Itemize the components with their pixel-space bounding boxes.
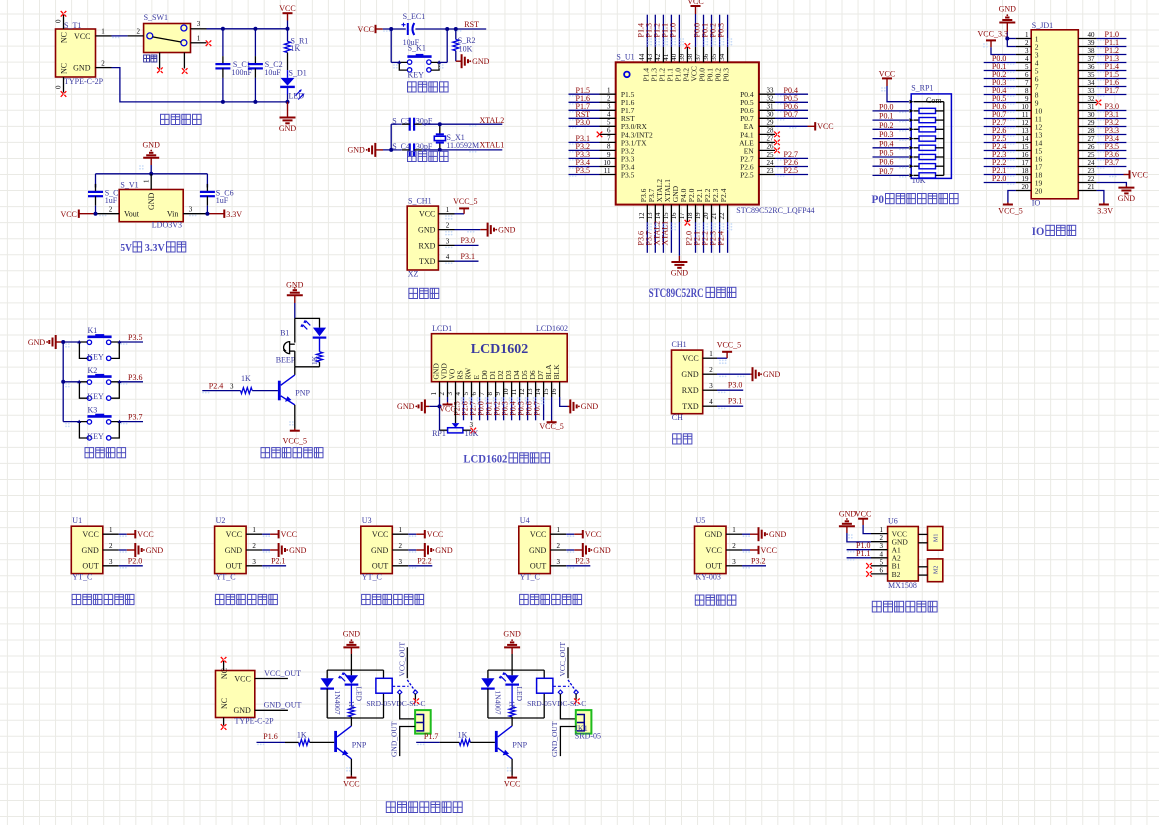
wire net P1.0	[678, 15, 680, 47]
wire key K1 to net	[120, 341, 144, 343]
resistor network S_RP1 body	[911, 94, 951, 178]
svg-text:1: 1	[880, 526, 884, 534]
svg-text:17: 17	[1022, 159, 1030, 167]
svg-text:BEEP: BEEP	[276, 356, 296, 365]
svg-text:13: 13	[1022, 127, 1030, 135]
capacitor S_C4 30pF	[409, 143, 411, 156]
wire net P1.4	[646, 15, 648, 47]
svg-text:13: 13	[526, 388, 534, 396]
svg-text:23: 23	[767, 167, 775, 175]
wire LCD P0.4	[519, 397, 521, 420]
svg-text:GND: GND	[472, 57, 490, 66]
svg-text:1K: 1K	[297, 731, 307, 740]
junction crystal left	[389, 148, 393, 152]
wire LCD P2.5	[463, 397, 465, 420]
ground at S_R2	[456, 60, 462, 62]
wire TXD row	[455, 260, 479, 262]
transistor Q1 PNP	[278, 381, 281, 401]
ground right of CH1	[752, 367, 754, 381]
svg-text:4: 4	[709, 398, 713, 406]
svg-text:14: 14	[534, 388, 542, 396]
relay coil box	[543, 670, 545, 678]
svg-text:29: 29	[1088, 119, 1096, 127]
capacitor S_EC1 10uF polarized	[407, 23, 409, 35]
terminal block green	[415, 710, 431, 734]
wire crystal left vertical	[390, 124, 392, 150]
svg-text:U3: U3	[362, 516, 372, 525]
svg-text:VCC_OUT: VCC_OUT	[264, 669, 301, 678]
svg-text:1: 1	[1025, 31, 1029, 39]
svg-text:2: 2	[101, 59, 105, 67]
S_V1 pin 1 GND top	[150, 174, 152, 190]
wire net P0.5	[775, 101, 808, 103]
S_JD1 left pin 3	[1016, 54, 1031, 56]
wire RXD row	[455, 244, 479, 246]
wire terminal GND_OUT	[400, 727, 415, 757]
svg-text:RP1: RP1	[432, 429, 446, 438]
svg-text:VCC: VCC	[879, 69, 895, 78]
svg-text:14: 14	[1022, 135, 1030, 143]
svg-text:35: 35	[1088, 71, 1096, 79]
wire NC contact to terminal	[560, 694, 575, 719]
switch S_SW1 body	[144, 24, 191, 53]
TYPE-C NC pin bottom	[223, 718, 225, 726]
module U1 body	[71, 526, 103, 573]
S_JD1 right pin 33	[1078, 94, 1096, 96]
svg-text:VCC_5: VCC_5	[539, 422, 563, 431]
svg-text:34: 34	[1088, 79, 1096, 87]
wire base input	[202, 390, 240, 392]
S_U1 top pin 35 P0.2	[719, 47, 721, 62]
S_JD1 left pin 4	[1016, 62, 1031, 64]
title 复位电路	[408, 82, 417, 92]
svg-text:21: 21	[1088, 183, 1096, 191]
junction Vout	[94, 212, 98, 216]
svg-text:1: 1	[607, 87, 611, 95]
S_U1 left pin 1 P1.5	[600, 93, 616, 95]
LCD pin 4 RS	[463, 382, 465, 397]
junction trunk K1	[61, 340, 65, 344]
S_JD1 right pin 22	[1078, 182, 1096, 184]
svg-text:XTAL1: XTAL1	[660, 221, 669, 246]
svg-text:12: 12	[518, 388, 526, 396]
svg-text:3: 3	[557, 558, 561, 566]
svg-text:9: 9	[1025, 95, 1029, 103]
svg-text:15: 15	[662, 212, 670, 220]
S_U1 bottom pin 13 P3.7	[654, 205, 656, 222]
S_JD1 right pin 28	[1078, 134, 1096, 136]
wire U5 GND	[742, 533, 750, 535]
svg-text:7: 7	[478, 392, 486, 396]
wire relay top rail	[327, 669, 383, 671]
S_JD1 left pin 13	[1016, 134, 1031, 136]
svg-text:NC: NC	[220, 698, 229, 709]
svg-text:30: 30	[1088, 111, 1096, 119]
wire CH1 VCC to VCC_5	[717, 357, 727, 359]
svg-text:TYPE-C-2P: TYPE-C-2P	[64, 77, 104, 86]
svg-text:27: 27	[1088, 135, 1096, 143]
wire net XTAL2	[662, 222, 664, 253]
wire right cap branch	[206, 174, 208, 188]
svg-text:P2.4: P2.4	[719, 188, 728, 202]
svg-text:GND: GND	[279, 124, 297, 133]
U6 pin 3 A1	[871, 549, 888, 551]
resistor 1K relay branch	[511, 685, 513, 707]
S_U1 top pin 36 P0.1	[711, 47, 713, 62]
wire alarm top node	[294, 318, 296, 342]
wire base relay	[310, 741, 335, 743]
svg-text:GND: GND	[593, 546, 611, 555]
svg-text:VCC: VCC	[427, 530, 443, 539]
svg-text:GND: GND	[705, 530, 723, 539]
wire emitter to VCC_5	[294, 405, 296, 429]
S_U1 right pin 32 P0.5	[759, 101, 775, 103]
svg-text:42: 42	[654, 53, 662, 61]
S_JD1 right pin 23	[1078, 174, 1096, 176]
wire net P0.3	[984, 86, 1016, 88]
svg-text:GND: GND	[769, 530, 787, 539]
svg-text:1K: 1K	[458, 731, 468, 740]
svg-text:VCC: VCC	[234, 674, 250, 683]
svg-text:P3.7: P3.7	[128, 413, 142, 422]
svg-text:STC89C52RC: STC89C52RC	[649, 286, 704, 300]
wire net P2.2	[711, 222, 713, 253]
svg-text:VCC_3.3: VCC_3.3	[978, 29, 1008, 38]
LCD pin 15 BLA	[551, 382, 553, 397]
svg-text:23: 23	[1088, 167, 1096, 175]
S_JD1 left pin 10	[1016, 110, 1031, 112]
wire net P0.6	[775, 109, 808, 111]
S_U1 bottom pin 16 GND	[678, 205, 680, 222]
wire pin 22 to GND	[1097, 183, 1127, 186]
svg-text:P3.7: P3.7	[1105, 158, 1119, 167]
S_U1 right pin 23 P2.5	[759, 174, 775, 176]
svg-text:P0.3: P0.3	[717, 23, 726, 37]
capacitor S_C1 100nF	[222, 29, 224, 56]
svg-text:2: 2	[1025, 39, 1029, 47]
wire net P1.5	[569, 93, 600, 95]
S_U1 bottom pin 19 P2.1	[703, 205, 705, 222]
S_U1 bottom pin 21 P2.3	[719, 205, 721, 222]
diode 1N4007	[487, 670, 489, 678]
no-connect X pin 6	[597, 132, 603, 138]
svg-text:1K: 1K	[347, 701, 356, 711]
wire net P1.3	[654, 15, 656, 47]
svg-text:YT_C: YT_C	[520, 573, 540, 582]
S_U1 left pin 7 P3.1/TX	[600, 141, 616, 143]
svg-text:LCD1602: LCD1602	[463, 453, 507, 465]
svg-text:S_D1: S_D1	[289, 68, 307, 77]
no-connect X pot pin 3	[471, 428, 477, 434]
svg-text:3: 3	[230, 383, 234, 391]
S_RP1 resistor element 1	[910, 109, 914, 113]
wire XTAL1 rail	[383, 149, 402, 151]
svg-text:P0.3: P0.3	[879, 130, 893, 139]
svg-text:P1.7: P1.7	[424, 732, 438, 741]
svg-text:8: 8	[607, 143, 611, 151]
title 液体触发模块 U2	[215, 594, 224, 604]
svg-text:LCD1: LCD1	[432, 324, 452, 333]
wire net P0.1	[984, 70, 1016, 72]
svg-text:12: 12	[1022, 119, 1030, 127]
svg-text:2: 2	[446, 222, 450, 230]
ground U2	[278, 543, 280, 557]
wire net P1.0	[847, 549, 871, 551]
S_JD1 left pin 1	[1016, 38, 1031, 40]
wire GND row	[455, 229, 481, 231]
svg-text:11.0592M: 11.0592M	[446, 141, 479, 150]
wire LCD P0.1	[495, 397, 497, 420]
wire net P1.3	[1097, 62, 1127, 64]
svg-text:GND: GND	[397, 402, 415, 411]
wire net P0.7	[984, 118, 1016, 120]
potentiometer RP1 10K	[455, 397, 457, 423]
S_U1 right pin 24 P2.6	[759, 166, 775, 168]
svg-text:4: 4	[446, 253, 450, 261]
svg-text:16: 16	[670, 212, 678, 220]
S_SW1 bottom pins unconnected	[159, 53, 161, 69]
svg-text:P0: P0	[872, 194, 885, 206]
svg-text:19: 19	[1022, 175, 1030, 183]
svg-text:38: 38	[1088, 47, 1096, 55]
svg-text:10: 10	[1022, 103, 1030, 111]
svg-text:GND: GND	[73, 64, 91, 73]
svg-text:38: 38	[686, 53, 694, 61]
relay switch lever	[568, 680, 576, 691]
S_JD1 right pin 26	[1078, 150, 1096, 152]
wire VCC_3.3 to pin 3	[991, 47, 1016, 54]
svg-text:1: 1	[732, 526, 736, 534]
wire U3 OUT	[408, 565, 432, 567]
wire key K2 to net	[120, 381, 144, 383]
wire net P2.0	[695, 222, 697, 253]
wire net P0.3	[873, 138, 909, 140]
svg-text:KY-003: KY-003	[696, 573, 721, 582]
motor connector M2	[928, 559, 943, 582]
LCD pin 10 D3	[511, 382, 513, 397]
svg-text:4: 4	[1025, 55, 1029, 63]
wire pin20 to VCC_5	[1008, 191, 1016, 203]
junction LDO gnd	[149, 172, 153, 176]
LCD pin 12 D5	[527, 382, 529, 397]
svg-text:3: 3	[709, 382, 713, 390]
resistor 1K base relay	[299, 739, 310, 745]
wire S_T1 VCC to switch	[112, 35, 128, 37]
S_JD1 left pin 7	[1016, 86, 1031, 88]
LCD pin 13 D6	[535, 382, 537, 397]
wire net P2.1	[703, 222, 705, 253]
svg-text:28: 28	[1088, 127, 1096, 135]
svg-text:2: 2	[607, 95, 611, 103]
S_JD1 right pin 36	[1078, 70, 1096, 72]
S_U1 left pin 3 P1.7	[600, 109, 616, 111]
wire VCC to VCC_5 port	[455, 213, 465, 215]
wire net P3.0	[1097, 110, 1127, 112]
svg-text:VCC_5: VCC_5	[283, 437, 307, 446]
wire net P3.5	[569, 174, 600, 176]
S_JD1 left pin 2	[1016, 46, 1031, 48]
LED S_D1	[281, 78, 295, 86]
S_U1 top pin 44 P1.4	[646, 47, 648, 62]
wire net P3.4	[1097, 142, 1127, 144]
ground U1	[134, 543, 136, 557]
crystal S_X1 11.0592M	[439, 124, 441, 134]
ground U3	[424, 543, 426, 557]
junction at S_C2 bottom	[253, 100, 257, 104]
terminal block green	[576, 710, 592, 734]
svg-text:M1: M1	[934, 534, 940, 542]
S_U1 left pin 6 P4.3/INT2	[600, 133, 616, 135]
relay switch lever	[407, 680, 415, 691]
svg-text:2: 2	[252, 542, 256, 550]
svg-text:P3.1: P3.1	[461, 252, 475, 261]
regulator S_V1 LDO3V3 body	[119, 190, 183, 222]
svg-text:GND: GND	[435, 546, 453, 555]
wire net P2.2	[984, 166, 1016, 168]
svg-text:39: 39	[1088, 39, 1096, 47]
svg-text:IO: IO	[1032, 198, 1041, 207]
svg-text:GND: GND	[1118, 194, 1136, 203]
wire CH1 RXD	[717, 389, 743, 391]
no-connect X pin 26	[774, 148, 780, 154]
svg-text:34: 34	[718, 53, 726, 61]
title 液体触发模块 U1	[72, 594, 81, 604]
S_JD1 right pin 31	[1078, 110, 1096, 112]
junction at S_R2	[454, 27, 458, 31]
LED relay arrows	[501, 673, 510, 682]
svg-text:GND: GND	[763, 370, 781, 379]
no-connect X pin 27	[774, 140, 780, 146]
wire net P3.0	[569, 125, 600, 127]
S_JD1 left pin 18	[1016, 174, 1031, 176]
svg-text:KEY: KEY	[408, 71, 425, 80]
svg-text:P0.7: P0.7	[879, 167, 893, 176]
svg-text:VCC: VCC	[343, 780, 359, 789]
wire CH1 TXD	[717, 405, 743, 407]
wire net P3.2	[569, 149, 600, 151]
svg-text:K1: K1	[88, 326, 98, 335]
svg-text:36: 36	[1088, 63, 1096, 71]
wire U2 GND	[262, 549, 270, 551]
power port VCC U2	[278, 530, 280, 538]
LCD pin 8 D1	[495, 382, 497, 397]
relay NO contact with X	[414, 694, 416, 700]
svg-text:IO: IO	[1032, 226, 1045, 238]
svg-text:1: 1	[109, 526, 113, 534]
wire LCD P2.7	[479, 397, 481, 420]
svg-text:LDO3V3: LDO3V3	[152, 221, 182, 230]
LED relay	[350, 670, 352, 675]
TYPE-C NC pin top	[223, 661, 225, 671]
svg-text:3: 3	[732, 558, 736, 566]
wire key trunk	[62, 342, 64, 422]
diode 1N4007	[326, 670, 328, 678]
wire U5 OUT	[742, 565, 766, 567]
module U3 body	[361, 526, 393, 573]
svg-text:GND: GND	[225, 546, 243, 555]
connector CH1 body	[672, 350, 703, 414]
wire U1 GND	[119, 549, 127, 551]
wire U3 GND	[408, 549, 416, 551]
junction trunk K2	[61, 380, 65, 384]
capacitor S_C2 10uF	[254, 29, 256, 56]
svg-text:31: 31	[1088, 103, 1096, 111]
S_U1 right pin 30 P0.7	[759, 117, 775, 119]
S_JD1 right pin 24	[1078, 166, 1096, 168]
svg-text:VCC: VCC	[817, 122, 833, 131]
wire net P2.7	[775, 157, 808, 159]
svg-text:37: 37	[694, 53, 702, 61]
svg-text:M2: M2	[934, 566, 940, 574]
no-connect X pin 32	[1096, 100, 1102, 106]
no-connect X U6 pin5	[866, 563, 872, 569]
wire net P0.7	[873, 174, 909, 176]
power port VCC right	[1129, 170, 1131, 178]
svg-text:7: 7	[607, 135, 611, 143]
svg-text:B2: B2	[892, 570, 901, 579]
header S_JD1 body	[1031, 30, 1078, 199]
transistor Q PNP relay	[334, 731, 337, 752]
S_U1 top pin 37 P0.0	[703, 47, 705, 62]
svg-text:30pF: 30pF	[416, 142, 433, 151]
S_U1 top pin 34 P0.3	[727, 47, 729, 62]
module U5 body	[695, 526, 727, 573]
svg-text:15: 15	[542, 388, 550, 396]
wire net P0.2	[873, 128, 909, 130]
svg-text:29: 29	[767, 119, 775, 127]
svg-text:GND: GND	[343, 630, 361, 639]
svg-text:P0.7: P0.7	[533, 401, 542, 415]
wire GND to pins 1-2	[1007, 32, 1016, 47]
wire net P2.3	[984, 158, 1016, 160]
svg-text:8: 8	[1025, 87, 1029, 95]
S_JD1 left pin 16	[1016, 158, 1031, 160]
wire net P1.4	[1097, 70, 1127, 72]
wire pin38 to VCC	[695, 14, 697, 47]
wire BEEP bottom to rail	[294, 351, 296, 367]
wire net P1.7	[1097, 94, 1127, 96]
wire U4 VCC	[566, 533, 574, 535]
power port VCC at EA	[814, 122, 816, 130]
LED relay arrows	[340, 673, 349, 682]
svg-text:P3.0: P3.0	[728, 381, 742, 390]
relay actuator dashed link	[392, 685, 408, 687]
svg-text:3: 3	[1025, 47, 1029, 55]
wire LCD VDD to VCC	[447, 397, 449, 402]
svg-text:6: 6	[880, 566, 884, 574]
svg-text:RXD: RXD	[419, 241, 436, 250]
svg-text:KEY: KEY	[87, 392, 104, 401]
svg-text:VCC: VCC	[530, 530, 546, 539]
ground symbol below LED	[287, 102, 289, 118]
LCD1 module body	[432, 334, 568, 382]
U6 pin 2 GND	[871, 541, 888, 543]
LCD pin 2 VDD	[447, 382, 449, 397]
svg-text:P1.7: P1.7	[1105, 86, 1119, 95]
svg-text:11: 11	[604, 167, 611, 175]
wire LCD P0.0	[487, 397, 489, 420]
wire net P0.0	[984, 62, 1016, 64]
svg-text:1: 1	[557, 526, 561, 534]
svg-text:P3.1: P3.1	[728, 397, 742, 406]
wire XTAL2 rail	[391, 123, 402, 125]
svg-text:GND_OUT: GND_OUT	[264, 701, 302, 710]
svg-text:9: 9	[494, 392, 502, 396]
title 按键电路	[85, 448, 94, 458]
LED relay	[511, 670, 513, 675]
S_SW1 contacts and lever	[147, 33, 153, 39]
wire net P3.5	[1097, 150, 1127, 152]
